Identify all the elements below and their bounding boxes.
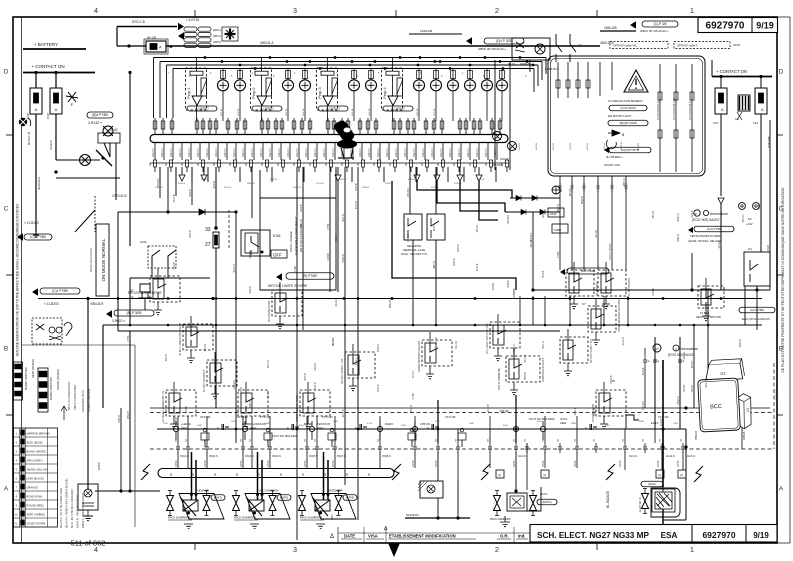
svg-text:9: 9	[261, 163, 263, 167]
svg-text:(A)(1)P7 B/7B: (A)(1)P7 B/7B	[621, 148, 639, 152]
svg-text:(F)LLDEEP. AUTO OK DSC: (F)LLDEEP. AUTO OK DSC	[486, 323, 489, 354]
svg-text:44B7-N: 44B7-N	[250, 400, 252, 408]
svg-text:4030-B: 4030-B	[305, 373, 307, 381]
svg-text:(B)4 P7/B9: (B)4 P7/B9	[92, 113, 108, 117]
svg-text:4412-N: 4412-N	[259, 148, 263, 157]
svg-text:3/TBK: 3/TBK	[558, 251, 560, 258]
svg-text:4C13-B: 4C13-B	[575, 407, 577, 415]
svg-text:INFO DE L'IMIT'E SEVERE: INFO DE L'IMIT'E SEVERE	[268, 284, 307, 288]
svg-text:9: 9	[453, 163, 455, 167]
svg-text:CB: CB	[488, 438, 490, 442]
svg-text:A: A	[55, 107, 58, 112]
svg-text:3/TBK: 3/TBK	[240, 460, 243, 467]
svg-text:4412-N: 4412-N	[706, 380, 708, 388]
svg-text:6927970: 6927970	[702, 530, 735, 540]
svg-text:45Q2-N: 45Q2-N	[514, 344, 516, 352]
svg-text:A: A	[779, 486, 784, 493]
svg-text:2-R142 »: 2-R142 »	[88, 121, 102, 125]
svg-text:9: 9	[357, 163, 359, 167]
svg-text:47POSITION ON FIL: 47POSITION ON FIL	[82, 389, 85, 412]
svg-text:1502-B: 1502-B	[570, 142, 572, 150]
svg-text:DBB-N° CONNECTING: DBB-N° CONNECTING	[74, 385, 77, 410]
svg-text:2: 2	[495, 545, 499, 554]
svg-text:(CSY N. CONNETIN): (CSY N. CONNETIN)	[499, 368, 501, 390]
svg-text:SPORT OZZ: SPORT OZZ	[604, 163, 620, 167]
svg-text:188.D-V : WIRE N° WLD RED: 188.D-V : WIRE N° WLD RED	[81, 493, 85, 528]
svg-text:4C13-B: 4C13-B	[596, 230, 598, 238]
svg-text:4412-N: 4412-N	[421, 148, 425, 157]
svg-text:3/TBK: 3/TBK	[128, 335, 130, 342]
svg-text:K: K	[217, 426, 219, 430]
svg-text:ELECTRO LN: ELECTRO LN	[639, 497, 642, 512]
svg-text:NF30: NF30	[550, 212, 557, 216]
svg-text:Ind.: Ind.	[518, 534, 525, 539]
svg-text:» 11-B103: » 11-B103	[24, 221, 39, 225]
svg-text:4412-N: 4412-N	[385, 148, 389, 157]
svg-text:D4: D4	[748, 217, 752, 221]
svg-text:4030-B: 4030-B	[411, 405, 413, 413]
svg-text:4412-N: 4412-N	[448, 148, 452, 157]
svg-text:W7: W7	[655, 347, 659, 351]
svg-text:3/CDT: 3/CDT	[733, 43, 741, 47]
svg-text:4C13-B: 4C13-B	[719, 240, 721, 248]
svg-text:3/TBK: 3/TBK	[175, 460, 178, 467]
svg-text:1502-B: 1502-B	[543, 270, 545, 278]
svg-text:UTB OR: UTB OR	[499, 410, 509, 413]
svg-text:CB: CB	[456, 438, 458, 442]
svg-text:4030-B: 4030-B	[356, 183, 358, 191]
svg-text:Prop 3: Prop 3	[318, 87, 322, 98]
svg-text:CTS OR: CTS OR	[260, 415, 271, 419]
svg-text:4/12-BL: 4/12-BL	[352, 108, 354, 116]
svg-text:TE/STOOP: TE/STOOP	[317, 422, 330, 426]
svg-text:3/TBK: 3/TBK	[304, 460, 307, 467]
svg-text:4164-B: 4164-B	[661, 418, 663, 426]
svg-text:(C)1 P7/B9: (C)1 P7/B9	[52, 289, 68, 293]
svg-text:(EVP4): (EVP4)	[542, 500, 551, 504]
svg-text:(E) P7/B9: (E) P7/B9	[303, 274, 317, 278]
svg-text:6295-R: 6295-R	[408, 179, 416, 181]
svg-text:4000-B-A: 4000-B-A	[260, 41, 274, 45]
svg-text:1080-B/A: 1080-B/A	[407, 188, 410, 198]
svg-text:K2B1-B-N: K2B1-B-N	[545, 67, 559, 71]
svg-text:6295-R: 6295-R	[543, 210, 545, 218]
svg-text:4412-N: 4412-N	[205, 148, 209, 157]
svg-text:K4: K4	[748, 247, 752, 251]
svg-text:4/12-BL: 4/12-BL	[417, 108, 419, 116]
svg-text:6295-B: 6295-B	[520, 62, 530, 66]
svg-text:45Q4-N: 45Q4-N	[272, 455, 281, 458]
svg-text:4501-N: 4501-N	[543, 341, 545, 349]
svg-text:DOWN WINDOW SECURIT: DOWN WINDOW SECURIT	[418, 340, 421, 372]
svg-text:3/TBK: 3/TBK	[267, 460, 270, 467]
svg-text:3/TBK: 3/TBK	[413, 392, 415, 399]
svg-text:ORANGE: ORANGE	[27, 485, 39, 489]
svg-text:33: 33	[205, 227, 211, 233]
svg-text:A9E4: A9E4	[560, 421, 567, 425]
svg-text:(C)-P 3/8: (C)-P 3/8	[654, 22, 667, 26]
svg-text:CTS OR: CTS OR	[237, 415, 248, 419]
svg-text:CB: CB	[305, 438, 307, 442]
svg-text:CB: CB	[543, 438, 545, 442]
svg-text:(A) 6 P7/B9: (A) 6 P7/B9	[707, 227, 722, 231]
svg-text:Δ: Δ	[330, 534, 334, 540]
svg-text:3142: 3142	[110, 128, 118, 132]
svg-text:3/TBK: 3/TBK	[514, 288, 516, 295]
svg-text:(L) SERVO: (L) SERVO	[391, 106, 404, 110]
svg-text:CB: CB	[268, 438, 270, 442]
svg-text:JAUNE (YELLOW: JAUNE (YELLOW	[27, 467, 48, 471]
svg-text:TE/ESCOP: TE/ESCOP	[327, 489, 342, 493]
svg-text:OPTION? cable V: OPTION? cable V	[677, 44, 698, 48]
svg-text:CB: CB	[186, 438, 188, 442]
svg-text:5070-C: 5070-C	[413, 370, 415, 378]
svg-text:V/B4-B-R: V/B4-B-R	[90, 302, 104, 306]
svg-text:A: A	[761, 107, 764, 112]
svg-text:6295-R: 6295-R	[454, 258, 456, 266]
svg-text:6295-R: 6295-R	[454, 183, 462, 185]
svg-text:4164-B: 4164-B	[186, 406, 188, 414]
svg-text:RE LECTURE D'ETAT: RE LECTURE D'ETAT	[128, 291, 162, 295]
svg-text:4501-N: 4501-N	[604, 142, 606, 150]
svg-text:1080: 1080	[469, 423, 475, 425]
svg-text:4164-B: 4164-B	[643, 367, 645, 375]
svg-text:VIOLET (PURPL: VIOLET (PURPL	[27, 521, 47, 525]
svg-text:4164-B: 4164-B	[250, 251, 252, 259]
svg-text:4C13-B: 4C13-B	[333, 337, 335, 345]
svg-text:511 of 862: 511 of 862	[71, 539, 106, 548]
svg-text:4412-N: 4412-N	[187, 148, 191, 157]
svg-text:EL.L5: EL.L5	[651, 421, 659, 425]
svg-text:Prop 4: Prop 4	[383, 87, 387, 98]
svg-text:ROSE (PINK): ROSE (PINK)	[27, 494, 43, 498]
svg-text:PB02-B: PB02-B	[247, 183, 255, 185]
svg-text:CTS OR: CTS OR	[200, 415, 211, 419]
svg-text:4412-N: 4412-N	[692, 360, 694, 368]
svg-text:A9E2: A9E2	[250, 426, 257, 430]
svg-text:VENTILATEURS DU B9AR: VENTILATEURS DU B9AR	[690, 234, 721, 238]
svg-text:K3 BUF LOWER INTERRUPT: K3 BUF LOWER INTERRUPT	[179, 322, 182, 356]
svg-text:9: 9	[229, 163, 231, 167]
svg-text:BL.INDAGE: BL.INDAGE	[606, 491, 610, 508]
svg-text:ON MODE NORMAL: ON MODE NORMAL	[101, 238, 106, 281]
svg-text:BLEU (BLUE): BLEU (BLUE)	[27, 440, 43, 444]
svg-text:4412-N: 4412-N	[277, 148, 281, 157]
svg-text:BB-N° CU CONNECTEUR: BB-N° CU CONNECTEUR	[68, 381, 71, 410]
svg-text:10: 10	[578, 43, 582, 47]
svg-text:(C)4 P7/B9: (C)4 P7/B9	[750, 308, 764, 312]
svg-text:14-WIRE POSITIONS: 14-WIRE POSITIONS	[88, 388, 91, 412]
svg-text:VISA: VISA	[368, 534, 378, 539]
svg-text:9: 9	[469, 163, 471, 167]
svg-text:4030: 4030	[401, 425, 407, 427]
svg-text:A: A	[721, 107, 724, 112]
svg-text:3/TB: 3/TB	[333, 421, 338, 423]
svg-text:PB02: PB02	[571, 423, 577, 425]
svg-text:4412-N: 4412-N	[457, 148, 461, 157]
svg-text:6295-R: 6295-R	[378, 344, 380, 352]
svg-text:4G12-N: 4G12-N	[234, 264, 236, 272]
svg-text:4412-N: 4412-N	[394, 148, 398, 157]
svg-text:PB02-B: PB02-B	[408, 233, 410, 241]
svg-text:9: 9	[213, 163, 215, 167]
svg-text:4164-B: 4164-B	[328, 253, 330, 261]
svg-text:+13V: +13V	[746, 222, 753, 226]
svg-text:4412-N: 4412-N	[295, 148, 299, 157]
svg-text:(DP3): (DP3)	[213, 40, 221, 44]
svg-text:4030-B: 4030-B	[190, 189, 192, 197]
svg-text:9/19: 9/19	[756, 21, 774, 31]
svg-text:45Q8-N: 45Q8-N	[382, 455, 391, 458]
svg-text:1502: 1502	[231, 421, 237, 423]
svg-text:OPTION?-cable VAL: OPTION?-cable VAL	[613, 44, 637, 48]
svg-text:SCH. ELECT. NG27 NG33 MP: SCH. ELECT. NG27 NG33 MP	[537, 531, 649, 540]
svg-text:4501-N: 4501-N	[343, 214, 345, 222]
svg-text:4030-B-G: 4030-B-G	[37, 176, 41, 190]
svg-text:LEVAGE: LEVAGE	[197, 489, 209, 493]
svg-text:(EXP3): (EXP3)	[346, 495, 354, 499]
svg-text:C37: C37	[713, 121, 719, 125]
svg-text:4412-N: 4412-N	[376, 148, 380, 157]
svg-text:PB02-B: PB02-B	[128, 411, 130, 419]
svg-text:1080-B/A: 1080-B/A	[530, 232, 533, 242]
svg-text:9: 9	[421, 163, 423, 167]
svg-text:D: D	[779, 69, 784, 76]
svg-text:A9E3: A9E3	[317, 426, 324, 430]
svg-text:9/19: 9/19	[753, 531, 769, 540]
svg-text:K: K	[355, 426, 357, 430]
svg-text:CB: CB	[241, 438, 243, 442]
svg-text:thermofuse: thermofuse	[681, 347, 698, 351]
svg-text:A9E7: A9E7	[181, 426, 188, 430]
svg-text:4030-B: 4030-B	[378, 384, 380, 392]
svg-text:RADIO: RADIO	[385, 422, 393, 426]
svg-text:1502: 1502	[605, 425, 611, 427]
svg-text:9: 9	[341, 163, 343, 167]
svg-text:K: K	[585, 426, 587, 430]
svg-text:BLANC OMITTED: BLANC OMITTED	[24, 367, 28, 390]
svg-text:5070: 5070	[537, 421, 543, 423]
svg-text:4412-N: 4412-N	[331, 148, 335, 157]
svg-text:ESA: ESA	[661, 531, 678, 540]
svg-text:1502-B: 1502-B	[692, 385, 694, 393]
svg-text:(LEVEL OR DIAG. RELION): (LEVEL OR DIAG. RELION)	[688, 239, 721, 243]
svg-text:S200-B: S200-B	[500, 158, 509, 161]
svg-text:PB02-B: PB02-B	[343, 254, 345, 262]
svg-text:4G/2-N: 4G/2-N	[518, 455, 526, 458]
svg-text:(C)-R 3/21B: (C)-R 3/21B	[621, 106, 636, 110]
svg-text:4/12-BL: 4/12-BL	[238, 108, 240, 116]
svg-text:4412-N: 4412-N	[304, 148, 308, 157]
svg-text:B: B	[779, 346, 783, 353]
svg-text:4030-B: 4030-B	[214, 180, 216, 188]
svg-text:3: 3	[293, 6, 297, 15]
svg-text:3/TBK: 3/TBK	[328, 223, 330, 230]
svg-text:4412-N: 4412-N	[684, 352, 686, 360]
svg-text:4412-N: 4412-N	[403, 148, 407, 157]
svg-text:44B7: 44B7	[639, 421, 645, 423]
svg-text:OK DSC SCRIT L'ITT: OK DSC SCRIT L'ITT	[590, 338, 593, 363]
svg-text:45Q2-N: 45Q2-N	[678, 396, 680, 404]
svg-text:3/TBK: 3/TBK	[574, 460, 577, 467]
svg-text:PACK DAMPERS: PACK DAMPERS	[490, 517, 511, 521]
svg-text:4G14-N: 4G14-N	[666, 455, 675, 458]
svg-text:4412-N: 4412-N	[484, 148, 488, 157]
svg-text:4412-N: 4412-N	[358, 148, 362, 157]
svg-text:1H-FPODIUM-C/A: 1H-FPODIUM-C/A	[672, 98, 676, 120]
svg-text:6295-R: 6295-R	[315, 382, 317, 390]
svg-text:C3P: C3P	[46, 113, 50, 119]
svg-text:4/12-BL: 4/12-BL	[434, 108, 436, 116]
svg-text:(C)4 P7/B9: (C)4 P7/B9	[30, 235, 46, 239]
svg-text:A: A	[159, 45, 162, 50]
svg-text:CB: CB	[413, 438, 415, 442]
svg-text:0K DSC DSSDIVET: 0K DSC DSSDIVET	[203, 369, 206, 392]
svg-text:BLANC (WHITE): BLANC (WHITE)	[27, 449, 47, 453]
svg-text:F14: F14	[753, 121, 759, 125]
svg-text:thermofuse: thermofuse	[710, 212, 728, 216]
svg-text:4412-N: 4412-N	[466, 148, 470, 157]
svg-text:(L) SERVO: (L) SERVO	[326, 106, 339, 110]
svg-text:1: 1	[690, 545, 694, 554]
svg-text:6295-R: 6295-R	[385, 183, 393, 185]
svg-text:45Q2: 45Q2	[299, 425, 305, 427]
svg-text:4164-B: 4164-B	[536, 142, 538, 150]
svg-text:CB: CB	[525, 438, 527, 442]
svg-text:PB02-B: PB02-B	[611, 375, 613, 383]
svg-text:3/TBK: 3/TBK	[619, 460, 622, 467]
svg-text:3/TBK: 3/TBK	[412, 460, 415, 467]
svg-text:45Q2-N: 45Q2-N	[740, 339, 742, 347]
svg-text:B/BB-V: B/BB-V	[98, 462, 101, 470]
svg-text:4412-N: 4412-N	[169, 148, 173, 157]
svg-text:(C)4 P 3/2B: (C)4 P 3/2B	[496, 39, 513, 43]
svg-text:4501-N: 4501-N	[268, 360, 270, 368]
svg-text:K211: K211	[140, 240, 147, 244]
svg-text:CTS OR: CTS OR	[445, 415, 456, 419]
svg-text:5/70-C-B: 5/70-C-B	[132, 20, 145, 24]
svg-text:(EV3): (EV3)	[648, 482, 655, 486]
svg-text:CB: CB	[594, 438, 596, 442]
svg-text:4030: 4030	[197, 425, 203, 427]
svg-text:COUP. L'EVAGE: COUP. L'EVAGE	[289, 231, 293, 252]
svg-text:K1 RGSE LEVAGE/INCL.IN: K1 RGSE LEVAGE/INCL.IN	[162, 391, 165, 422]
svg-text:4G12-N: 4G12-N	[623, 337, 625, 345]
svg-text:4C13-B: 4C13-B	[336, 234, 338, 242]
svg-text:9: 9	[293, 163, 295, 167]
svg-text:1080: 1080	[265, 423, 271, 425]
svg-text:4412-N: 4412-N	[322, 148, 326, 157]
svg-text:PB02-B: PB02-B	[694, 431, 698, 440]
svg-text:1080-B/A: 1080-B/A	[507, 214, 510, 224]
svg-text:K1080: K1080	[554, 229, 562, 232]
svg-text:4030-B: 4030-B	[434, 223, 436, 231]
svg-text:4164-B: 4164-B	[508, 280, 510, 288]
svg-text:PB02-B: PB02-B	[621, 142, 623, 150]
svg-text:PACK DAMPERS: PACK DAMPERS	[234, 516, 256, 520]
svg-text:1502-B/B: 1502-B/B	[492, 164, 503, 167]
svg-text:(EXP1): (EXP1)	[214, 495, 222, 499]
svg-text:4G12-N: 4G12-N	[336, 298, 338, 306]
svg-text:C: C	[779, 206, 784, 213]
svg-text:9: 9	[165, 163, 167, 167]
svg-text:K: K	[427, 426, 429, 430]
svg-text:PB02-B: PB02-B	[525, 371, 527, 379]
svg-text:3/TBK: 3/TBK	[204, 460, 207, 467]
svg-text:e: e	[695, 212, 697, 216]
svg-text:4412-N: 4412-N	[439, 148, 443, 157]
svg-text:4/12-BL: 4/12-BL	[369, 108, 371, 116]
svg-text:NOIR (BLACK): NOIR (BLACK)	[27, 476, 45, 480]
svg-text:4164-B: 4164-B	[493, 282, 495, 290]
svg-text:4C13-B: 4C13-B	[301, 219, 303, 227]
svg-text:4412-N: 4412-N	[268, 148, 272, 157]
svg-text:O.R.: O.R.	[500, 534, 509, 539]
svg-text:+LEVAG: +LEVAG	[181, 422, 191, 426]
svg-text:4412-N: 4412-N	[178, 148, 182, 157]
svg-text:U3: U3	[746, 408, 750, 413]
svg-text:1502-B: 1502-B	[638, 142, 640, 150]
svg-text:PLOT DC MOLAIRE: PLOT DC MOLAIRE	[272, 434, 298, 438]
svg-text:5070-C: 5070-C	[356, 357, 358, 365]
svg-text:A: A	[4, 486, 9, 493]
svg-text:4164-B: 4164-B	[301, 204, 303, 212]
svg-text:4C13-B: 4C13-B	[356, 201, 358, 209]
svg-text:4030-B: 4030-B	[166, 354, 168, 362]
svg-text:CB: CB	[176, 438, 178, 442]
svg-text:45Q5 N: 45Q5 N	[309, 455, 318, 458]
svg-text:3/TB: 3/TB	[435, 421, 440, 423]
svg-text:VERT (GREEN): VERT (GREEN)	[27, 512, 46, 516]
svg-text:4C13-B: 4C13-B	[176, 417, 178, 425]
svg-text:6295-R: 6295-R	[315, 363, 317, 371]
svg-text:3/TBK: 3/TBK	[542, 460, 545, 467]
svg-text:9: 9	[277, 163, 279, 167]
svg-text:ELEC OR DIAG RELIGH: ELEC OR DIAG RELIGH	[742, 318, 770, 321]
svg-text:49.A-V-N : FIL N°49.A VERT-NOI: 49.A-V-N : FIL N°49.A VERT-NOIR	[59, 488, 63, 528]
svg-text:CB: CB	[205, 438, 207, 442]
svg-text:CB: CB	[558, 438, 560, 442]
svg-text:4412-N: 4412-N	[196, 148, 200, 157]
svg-text:PB02-B: PB02-B	[390, 300, 392, 308]
svg-text:(B)-P 3/B9: (B)-P 3/B9	[127, 311, 142, 315]
svg-text:Prop 2: Prop 2	[252, 87, 256, 98]
svg-text:4030-B: 4030-B	[241, 387, 243, 395]
svg-text:ETABLISSEMENT MODIFICATION: ETABLISSEMENT MODIFICATION	[389, 534, 456, 539]
svg-text:3130-S: 3130-S	[49, 140, 53, 150]
svg-text:CB: CB	[643, 438, 645, 442]
svg-text:CB: CB	[623, 438, 625, 442]
svg-text:5070-C-B: 5070-C-B	[27, 132, 31, 145]
svg-text:RR FRONT LIGHT: RR FRONT LIGHT	[608, 114, 632, 118]
svg-text:1502-B: 1502-B	[174, 262, 176, 270]
svg-text:4412-N: 4412-N	[367, 148, 371, 157]
svg-text:BLANC OMITTED: BLANC OMITTED	[49, 377, 53, 400]
svg-text:4501-N: 4501-N	[477, 225, 479, 233]
svg-text:9: 9	[181, 163, 183, 167]
svg-text:3/80C 3P CB-4C43 »: 3/80C 3P CB-4C43 »	[478, 47, 506, 51]
svg-text:4412-N: 4412-N	[214, 148, 218, 157]
svg-text:4412-N: 4412-N	[431, 187, 439, 189]
svg-text:» 3-R734: » 3-R734	[186, 18, 199, 22]
svg-text:4G/5-N: 4G/5-N	[687, 455, 695, 458]
svg-text:4030-B: 4030-B	[362, 187, 370, 189]
svg-text:60-R : FIL N°60 RD-C RD RADIO: 60-R : FIL N°60 RD-C RD RADIO	[70, 489, 74, 528]
svg-text:4030-B: 4030-B	[270, 179, 278, 181]
svg-text:A: A	[35, 107, 38, 112]
svg-text:+ CONTACT ON: + CONTACT ON	[31, 64, 64, 69]
svg-text:4: 4	[94, 6, 98, 15]
